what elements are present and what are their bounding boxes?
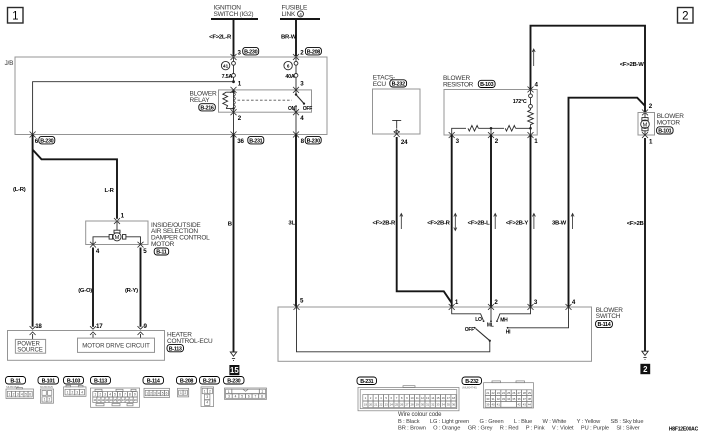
- wire 2B blower motor to ground: [627, 138, 645, 351]
- svg-text:LINK: LINK: [282, 11, 297, 18]
- fuse 6 40A: [284, 57, 298, 90]
- connector B-114 pin layout: [143, 377, 170, 398]
- blower motor pin 1: [642, 132, 653, 145]
- blower switch contact HI from pin 4: [506, 307, 569, 336]
- connector B-208 pin layout: [177, 377, 197, 397]
- svg-text:RESISTOR: RESISTOR: [443, 82, 474, 89]
- svg-text:17: 17: [447, 396, 451, 400]
- ground 2: [640, 351, 650, 374]
- wire colour code legend: [398, 412, 643, 432]
- wire IGN feed 2L-R: [209, 19, 233, 57]
- svg-text:25: 25: [395, 403, 399, 407]
- J/B exit 6 B-230: [30, 132, 55, 146]
- svg-text:172°C: 172°C: [513, 99, 527, 105]
- svg-text:<F>2B-R: <F>2B-R: [373, 220, 396, 226]
- svg-text:SWITCH: SWITCH: [596, 313, 621, 320]
- svg-text:2: 2: [643, 365, 648, 374]
- svg-text:H8F12E00AC: H8F12E00AC: [669, 426, 699, 432]
- svg-text:B-231: B-231: [249, 138, 262, 144]
- page marker 2: [678, 8, 694, 24]
- svg-text:21: 21: [486, 391, 490, 395]
- blower switch contact OFF: [465, 327, 476, 333]
- svg-text:B-230: B-230: [307, 138, 320, 144]
- connector B-232 pin layout: [462, 377, 534, 408]
- wire (G-O) to ECU pin 17: [78, 248, 93, 327]
- svg-text:21: 21: [374, 403, 378, 407]
- svg-text:34: 34: [507, 397, 511, 401]
- damper motor name label B-11: [151, 222, 210, 256]
- svg-text:36: 36: [517, 397, 521, 401]
- svg-text:3B-W: 3B-W: [552, 220, 567, 226]
- relay pin 1 entry: [231, 87, 237, 93]
- svg-text:27: 27: [405, 403, 409, 407]
- svg-text:MU804540: MU804540: [6, 385, 19, 389]
- blower switch common wire from pin 5: [297, 307, 491, 352]
- relay mechanical link (dashed): [238, 99, 293, 101]
- svg-text:12: 12: [421, 396, 425, 400]
- relay pin 3 entry: [293, 81, 304, 93]
- svg-text:MOTOR DRIVE CIRCUIT: MOTOR DRIVE CIRCUIT: [82, 343, 150, 350]
- node 1 junction to damper feed: [33, 80, 242, 134]
- ECU pin 18: [30, 323, 43, 339]
- svg-text:38: 38: [528, 397, 532, 401]
- svg-text:RELAY: RELAY: [190, 97, 211, 104]
- svg-text:29: 29: [416, 403, 420, 407]
- svg-text:ML: ML: [487, 323, 494, 329]
- connector B-11 pin layout: [6, 377, 34, 399]
- etacs pin 24: [394, 131, 408, 146]
- blower switch name label B-114: [596, 307, 624, 328]
- svg-text:40A: 40A: [285, 74, 294, 80]
- svg-text:5: 5: [25, 392, 27, 396]
- damper motor pin 1: [114, 213, 125, 224]
- motor drive circuit block: [78, 338, 155, 352]
- svg-text:22: 22: [491, 391, 495, 395]
- blower relay B-216 label: [190, 91, 217, 112]
- svg-text:B-101: B-101: [42, 378, 55, 384]
- wire (L-R) trunk to heater ECU pin 18: [13, 135, 33, 327]
- wire 3L from relay pin 4 to blower switch pin 5: [288, 135, 296, 308]
- svg-text:32: 32: [497, 397, 501, 401]
- svg-text:B-114: B-114: [598, 322, 611, 328]
- resistor pin 3 exit: [449, 132, 460, 145]
- svg-text:1: 1: [12, 11, 18, 23]
- blower switch pin 1: [449, 299, 459, 310]
- connector B-216 pin layout: [200, 377, 220, 407]
- svg-text:4: 4: [299, 12, 302, 17]
- svg-text:43: 43: [523, 403, 527, 407]
- svg-text:B-230: B-230: [40, 138, 53, 144]
- svg-text:33: 33: [436, 403, 440, 407]
- svg-text:B-114: B-114: [147, 378, 160, 384]
- svg-text:37: 37: [523, 397, 527, 401]
- svg-text:(R-Y): (R-Y): [125, 288, 138, 294]
- resistor pin 4 entry: [528, 82, 539, 93]
- blower switch box: [278, 307, 592, 361]
- svg-text:B-113: B-113: [94, 378, 107, 384]
- svg-text:(MU804740): (MU804740): [462, 386, 477, 390]
- svg-text:14: 14: [431, 396, 435, 400]
- ECU pin 9: [138, 323, 148, 338]
- svg-text:(L-R): (L-R): [13, 187, 26, 193]
- svg-text:<F>2B-L: <F>2B-L: [468, 220, 490, 226]
- J/B exit 36 B-231: [231, 132, 264, 146]
- relay pin 4 exit: [293, 109, 304, 134]
- blower switch pin 5: [294, 298, 305, 310]
- J/B exit 8 B-230: [293, 132, 321, 146]
- svg-text:MH: MH: [500, 317, 508, 323]
- svg-text:(G-O): (G-O): [78, 288, 92, 294]
- svg-text:39: 39: [486, 403, 490, 407]
- wire 3B-W switch pin 4 to blower motor pin 2: [552, 98, 645, 307]
- svg-text:34: 34: [442, 403, 446, 407]
- svg-text:B-101: B-101: [658, 129, 671, 135]
- resistor pin 1 exit: [528, 132, 539, 145]
- connector pin 3 B-230: [231, 47, 259, 60]
- svg-text:OFF: OFF: [303, 106, 312, 112]
- svg-text:3L: 3L: [288, 220, 295, 226]
- svg-text:B-208: B-208: [307, 49, 320, 55]
- etacs-ecu name label B-232: [373, 75, 407, 88]
- svg-text:31: 31: [491, 397, 495, 401]
- svg-text:B-232: B-232: [465, 379, 478, 385]
- svg-text:30: 30: [486, 397, 490, 401]
- blower motor name label B-101: [657, 113, 685, 135]
- svg-text:17: 17: [96, 323, 103, 330]
- wire L-R branch to damper motor: [33, 150, 117, 219]
- svg-text:<F>2B-R: <F>2B-R: [427, 220, 450, 226]
- svg-text:B-113: B-113: [169, 346, 182, 352]
- svg-text:31: 31: [426, 403, 430, 407]
- svg-text:<F>2L-R: <F>2L-R: [209, 35, 232, 41]
- svg-text:35: 35: [447, 403, 451, 407]
- svg-text:13: 13: [426, 396, 430, 400]
- svg-text:B-216: B-216: [203, 378, 216, 384]
- ground 15: [229, 352, 239, 375]
- resistor pin 2 exit: [488, 132, 499, 145]
- etacs output driver: [392, 120, 401, 134]
- svg-text:B-216: B-216: [200, 106, 213, 112]
- blower switch contact LO from pin 1: [452, 307, 485, 323]
- svg-text:M: M: [115, 235, 120, 241]
- svg-text:B-230: B-230: [227, 378, 240, 384]
- svg-text:27: 27: [517, 391, 521, 395]
- svg-text:MOTOR: MOTOR: [151, 241, 175, 248]
- svg-text:11: 11: [416, 396, 419, 400]
- svg-text:B-231: B-231: [360, 379, 373, 385]
- blower switch pin 3: [528, 299, 538, 310]
- svg-text:24: 24: [401, 139, 408, 146]
- svg-text:40: 40: [491, 403, 495, 407]
- wire 2B-L resistor pin 2 to switch pin 2: [468, 135, 497, 307]
- connector B-230 pin layout: [224, 377, 267, 400]
- blower relay box: [219, 90, 312, 112]
- svg-text:B-11: B-11: [156, 250, 166, 256]
- svg-text:MU804525: MU804525: [40, 385, 53, 389]
- svg-text:33: 33: [502, 397, 506, 401]
- svg-text:<F>2B-Y: <F>2B-Y: [506, 220, 528, 226]
- svg-text:1: 1: [67, 390, 69, 394]
- blower switch pin 4: [566, 299, 576, 310]
- svg-text:29: 29: [528, 391, 532, 395]
- connector B-231 pin layout: [357, 377, 459, 411]
- thermal fuse 172C: [513, 90, 533, 111]
- svg-text:18: 18: [452, 396, 456, 400]
- svg-text:26: 26: [512, 391, 516, 395]
- svg-text:25: 25: [507, 391, 511, 395]
- svg-text:B : Black LG : Light gre: B : Black LG : Light green G : Green L :…: [398, 419, 643, 425]
- svg-text:CONTROL-ECU: CONTROL-ECU: [167, 338, 213, 345]
- svg-text:23: 23: [385, 403, 389, 407]
- blower switch contact ML from pin 2: [487, 307, 494, 329]
- junction block J/B: [5, 57, 328, 135]
- svg-text:20: 20: [369, 403, 373, 407]
- ECU pin 17: [90, 323, 103, 338]
- damper motor pin 4 exit: [90, 242, 100, 255]
- power source block: [15, 339, 45, 353]
- svg-text:ECU: ECU: [373, 81, 387, 88]
- svg-text:B-232: B-232: [392, 82, 405, 88]
- svg-text:B-208: B-208: [180, 378, 193, 384]
- wire 2B-Y resistor pin 1 to switch pin 3: [506, 135, 536, 307]
- connector B-113 pin layout: [91, 377, 140, 408]
- svg-text:J/B: J/B: [5, 60, 14, 67]
- connector B-103 pin layout: [64, 377, 87, 397]
- etacs-ecu box: [373, 89, 421, 134]
- svg-text:28: 28: [411, 403, 415, 407]
- svg-text:SOURCE: SOURCE: [17, 347, 43, 354]
- resistor element vertical: [528, 110, 534, 128]
- wire FL feed BR-W: [281, 19, 297, 57]
- svg-text:22: 22: [379, 403, 383, 407]
- svg-text:18: 18: [35, 323, 42, 330]
- svg-text:L-R: L-R: [105, 188, 115, 194]
- svg-text:B-230: B-230: [244, 49, 257, 55]
- heater control-ecu box: [8, 331, 165, 361]
- relay contact switch ON/OFF: [288, 90, 312, 112]
- relay pin 2 exit: [231, 109, 242, 134]
- svg-text:B-103: B-103: [67, 378, 80, 384]
- svg-text:Wire colour code: Wire colour code: [398, 412, 442, 418]
- svg-text:15: 15: [436, 396, 440, 400]
- svg-text:16: 16: [442, 396, 446, 400]
- svg-text:SWITCH (IG2): SWITCH (IG2): [214, 11, 254, 18]
- fuse 41 7.5A: [221, 57, 235, 82]
- svg-text:32: 32: [431, 403, 435, 407]
- ignition switch (IG2) source label: [211, 5, 258, 19]
- svg-text:23: 23: [497, 391, 501, 395]
- svg-text:OFF: OFF: [465, 327, 474, 333]
- svg-text:2: 2: [682, 11, 688, 23]
- wire 2B-R resistor pin 3 to switch pin 1: [427, 135, 457, 307]
- svg-text:15: 15: [230, 366, 239, 375]
- blower motor M2: [638, 113, 655, 136]
- inside/outside air selection damper control motor M1: [86, 221, 148, 245]
- svg-text:41: 41: [223, 63, 229, 68]
- svg-text:19: 19: [364, 403, 368, 407]
- blower resistor box: [444, 90, 537, 136]
- svg-text:<F>2B-W: <F>2B-W: [620, 62, 644, 68]
- connector pin 2 B-208: [293, 47, 321, 60]
- svg-text:35: 35: [512, 397, 516, 401]
- svg-text:36: 36: [237, 138, 244, 145]
- svg-text:ON: ON: [288, 106, 296, 112]
- blower switch pin 2: [488, 299, 498, 310]
- svg-text:LO: LO: [475, 317, 482, 323]
- svg-text:B: B: [228, 222, 232, 228]
- svg-text:BR-W: BR-W: [281, 35, 297, 41]
- svg-text:6: 6: [119, 393, 121, 397]
- wire (R-Y) to ECU pin 9: [125, 248, 141, 327]
- svg-text:B-11: B-11: [10, 378, 20, 384]
- fusible link 4 source label: [280, 5, 320, 19]
- svg-text:B-103: B-103: [480, 82, 493, 88]
- blower switch rotor arm: [476, 329, 490, 341]
- svg-text:24: 24: [390, 403, 394, 407]
- svg-text:44: 44: [528, 403, 532, 407]
- svg-text:36: 36: [452, 403, 456, 407]
- svg-text:<F>2B: <F>2B: [627, 221, 644, 227]
- relay coil: [223, 90, 236, 112]
- wire B ground trunk from 36 B-231: [228, 135, 234, 353]
- svg-text:24: 24: [502, 391, 506, 395]
- connector B-101 pin layout: [38, 377, 59, 404]
- blower resistor name label B-103: [443, 75, 495, 88]
- page marker 1: [8, 8, 24, 24]
- svg-text:30: 30: [421, 403, 425, 407]
- blower motor pin 2: [642, 103, 653, 115]
- svg-text:26: 26: [400, 403, 404, 407]
- blower switch contact MH from pin 3: [496, 307, 530, 323]
- svg-text:42: 42: [517, 403, 521, 407]
- top feed wire from resistor pin 4 to blower motor pin 2: [531, 26, 646, 113]
- svg-text:28: 28: [523, 391, 527, 395]
- wire 2B-R from ETACS to blower switch pin 1: [373, 137, 452, 303]
- svg-text:MOTOR: MOTOR: [657, 119, 681, 126]
- svg-text:BR : Brown O : Orange: BR : Brown O : Orange GR : Grey R : Red …: [398, 426, 640, 432]
- svg-text:7.5A: 7.5A: [222, 74, 233, 80]
- resistor rail with elements: [452, 126, 532, 136]
- svg-text:10: 10: [411, 396, 415, 400]
- svg-text:6: 6: [287, 63, 290, 68]
- damper motor pin 5 exit: [138, 242, 148, 255]
- svg-text:41: 41: [497, 403, 501, 407]
- heater control-ecu name label B-113: [167, 332, 213, 353]
